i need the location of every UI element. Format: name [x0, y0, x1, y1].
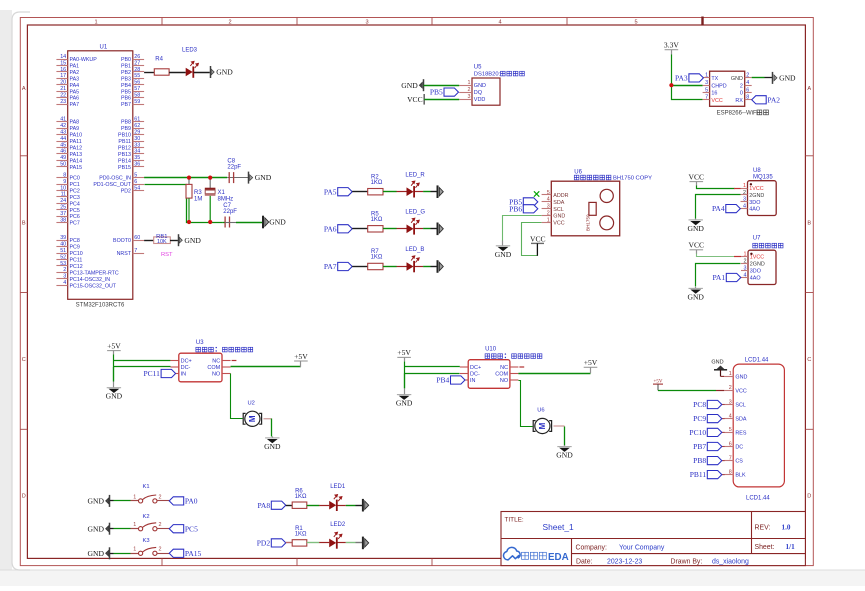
net flag PA3 — [675, 74, 703, 83]
wire RB1 to GND — [170, 240, 178, 242]
svg-text:2: 2 — [159, 494, 162, 500]
svg-text:C: C — [807, 357, 811, 363]
svg-text:PC10: PC10 — [70, 251, 83, 257]
svg-text:PC11: PC11 — [70, 258, 83, 264]
net flag PA4 — [712, 204, 740, 213]
svg-text:LCD1.44: LCD1.44 — [746, 496, 770, 502]
svg-text:PC15-OSC32_OUT: PC15-OSC32_OUT — [70, 283, 117, 289]
svg-text:Sheet:: Sheet: — [755, 544, 775, 551]
svg-text:5: 5 — [634, 20, 637, 26]
wire LED1 to GND — [346, 505, 356, 507]
svg-text:K3: K3 — [143, 538, 150, 544]
svg-text:3DO: 3DO — [750, 269, 761, 275]
svg-text:4: 4 — [63, 280, 66, 286]
svg-text:PA0: PA0 — [185, 497, 198, 506]
svg-text:IN: IN — [470, 378, 476, 384]
svg-text:9: 9 — [63, 179, 66, 185]
svg-text:VDD: VDD — [474, 97, 486, 103]
svg-text:1KΩ: 1KΩ — [295, 494, 307, 500]
net flag PC8 — [722, 404, 725, 406]
svg-text:PC8: PC8 — [70, 238, 80, 244]
svg-text:29: 29 — [134, 129, 140, 135]
svg-text:11: 11 — [61, 192, 67, 198]
svg-text:2: 2 — [743, 190, 746, 196]
wire PA7 to R7 — [352, 266, 368, 268]
svg-text:NO: NO — [500, 378, 509, 384]
svg-text:PA15: PA15 — [185, 549, 202, 558]
svg-text:1: 1 — [94, 20, 97, 26]
ground GND (LED3) — [211, 66, 234, 78]
svg-text:PA2: PA2 — [70, 70, 80, 76]
svg-text:NRST: NRST — [117, 251, 132, 257]
ground GND (U6 motor) — [556, 445, 573, 460]
svg-text:D: D — [22, 494, 26, 500]
wire 3.3V rail down — [672, 55, 703, 100]
svg-text:PC6: PC6 — [70, 214, 80, 220]
wire R1 to LED2 — [307, 542, 320, 544]
wire PB2 to R4 — [144, 72, 154, 74]
svg-text:57: 57 — [134, 86, 140, 92]
ground GND (C7) — [263, 216, 286, 229]
svg-text:2: 2 — [63, 267, 66, 273]
svg-text:VCC: VCC — [407, 95, 423, 104]
wire PD0-OSC_IN net (top rail) — [144, 177, 227, 179]
svg-text:PC3: PC3 — [70, 195, 80, 201]
svg-text:7: 7 — [134, 248, 137, 254]
net flag PB4 — [436, 376, 465, 385]
capacitor C7 22pF — [223, 203, 237, 228]
svg-text:40: 40 — [60, 241, 66, 247]
svg-text:3: 3 — [705, 80, 708, 86]
sensor U8 MQ135 — [741, 168, 777, 216]
svg-text:C8: C8 — [227, 158, 235, 164]
led LED_B — [397, 247, 425, 272]
svg-text:LED_B: LED_B — [405, 247, 424, 253]
svg-text:3: 3 — [547, 204, 550, 210]
junction dot 3.3V rail — [669, 83, 673, 87]
svg-text:20: 20 — [60, 80, 66, 86]
ground GND (LCD pin1) — [711, 360, 727, 377]
ground GND (U6) — [495, 241, 512, 259]
svg-text:PA2: PA2 — [767, 95, 780, 104]
svg-text:PC4: PC4 — [70, 201, 80, 207]
svg-text:1: 1 — [133, 494, 136, 500]
svg-text:1: 1 — [133, 547, 136, 553]
svg-text:38: 38 — [60, 217, 66, 223]
stub NC (U3) — [232, 360, 237, 362]
svg-text:51: 51 — [60, 248, 66, 254]
svg-text:30: 30 — [134, 136, 140, 142]
svg-text:4: 4 — [498, 20, 501, 26]
sensor U7 water-quality — [741, 235, 783, 284]
switch K3 — [133, 538, 161, 556]
svg-text:ds_xiaolong: ds_xiaolong — [712, 558, 749, 565]
svg-text:2: 2 — [228, 20, 231, 26]
wire VCC to U8 pin1 — [697, 186, 735, 189]
net flag PA5 — [324, 187, 352, 196]
svg-text:MQ135: MQ135 — [753, 175, 773, 181]
svg-text:PC5: PC5 — [70, 208, 80, 214]
wire COM to +5V — [231, 366, 301, 368]
wire R4 to LED3 — [169, 72, 186, 74]
svg-text:25: 25 — [60, 205, 66, 211]
svg-text:VCC: VCC — [553, 221, 564, 227]
svg-text:GND: GND — [474, 83, 486, 89]
net flag PC10 — [722, 431, 725, 433]
wire R5 to LED_G — [383, 228, 397, 230]
resistor R3 1M — [186, 178, 202, 222]
svg-text:EDA: EDA — [548, 552, 569, 563]
svg-text:+5V: +5V — [294, 352, 308, 361]
svg-text:GND: GND — [216, 68, 233, 77]
svg-text:Company:: Company: — [576, 544, 607, 551]
svg-text:+5V: +5V — [107, 341, 121, 350]
svg-text:C7: C7 — [223, 203, 231, 209]
wire R7 to LED_B — [383, 266, 397, 268]
svg-text:X1: X1 — [218, 190, 226, 196]
svg-text:61: 61 — [134, 117, 140, 123]
svg-text:1VCC: 1VCC — [750, 255, 764, 261]
svg-text:REV:: REV: — [755, 524, 771, 531]
svg-text:DC-: DC- — [470, 372, 480, 378]
svg-text:PA13: PA13 — [70, 152, 83, 158]
svg-text:8: 8 — [746, 95, 749, 101]
wire GND to K2 — [110, 528, 114, 530]
svg-text:1VCC: 1VCC — [749, 186, 763, 192]
svg-text:PB6: PB6 — [509, 204, 522, 213]
wire COM to +5V (U10) — [518, 373, 590, 375]
svg-text:GND: GND — [401, 81, 418, 90]
power VCC (U8) — [688, 172, 704, 185]
svg-text:15: 15 — [60, 60, 66, 66]
svg-text:1/1: 1/1 — [786, 543, 796, 551]
net flag PA8 — [257, 501, 285, 510]
wire PA8 to R6 — [286, 505, 292, 507]
svg-text:Drawn By:: Drawn By: — [671, 558, 703, 565]
svg-text:C: C — [22, 357, 26, 363]
power 3.3V — [664, 41, 679, 55]
svg-text:1.0: 1.0 — [782, 523, 791, 531]
svg-text:PA12: PA12 — [70, 145, 83, 151]
svg-text:PC0: PC0 — [70, 176, 80, 182]
net flag PD2 — [257, 539, 286, 548]
svg-text:SCL: SCL — [735, 403, 746, 409]
svg-text:2023-12-23: 2023-12-23 — [607, 558, 642, 565]
svg-text:1: 1 — [547, 217, 550, 223]
svg-text:U6: U6 — [537, 407, 544, 413]
svg-text:58: 58 — [134, 93, 140, 99]
svg-text:PA7: PA7 — [70, 102, 80, 108]
svg-text:2: 2 — [159, 547, 162, 553]
wire VCC to U5 pin3 — [424, 99, 459, 101]
svg-text:4AO: 4AO — [749, 207, 760, 213]
svg-text:1: 1 — [705, 73, 708, 79]
wire motor U6 to GND — [554, 425, 565, 427]
svg-text:GND: GND — [106, 392, 123, 401]
svg-text:50: 50 — [60, 162, 66, 168]
svg-text:PB15: PB15 — [118, 165, 131, 171]
svg-text:LED3: LED3 — [182, 48, 198, 54]
svg-text:PB11: PB11 — [690, 470, 707, 479]
svg-text:56: 56 — [134, 80, 140, 86]
ground (after LED2) — [363, 537, 369, 550]
wire R2 to LED_R — [383, 191, 397, 193]
svg-text:PB2: PB2 — [121, 70, 131, 76]
svg-text:PC9: PC9 — [693, 414, 706, 423]
svg-text:PB11: PB11 — [118, 139, 131, 145]
svg-text:PA4: PA4 — [712, 204, 725, 213]
svg-text:Sheet_1: Sheet_1 — [543, 522, 575, 532]
net flag PB8 — [722, 460, 725, 462]
svg-text:2: 2 — [746, 73, 749, 79]
svg-text:4: 4 — [547, 197, 550, 203]
resistor R5 1KΩ — [368, 212, 383, 233]
svg-text:LED2: LED2 — [330, 522, 346, 528]
svg-text:IN: IN — [181, 372, 187, 378]
svg-text:16: 16 — [60, 67, 66, 73]
svg-text:GND: GND — [88, 549, 105, 558]
power +5V (U10 left) — [397, 348, 411, 361]
svg-text:GND: GND — [269, 218, 286, 227]
svg-text:PB8: PB8 — [693, 456, 706, 465]
mcu U1 STM32F103RCT6 — [56, 44, 144, 308]
ground (after LED1) — [363, 499, 369, 512]
ground GND (C8) — [249, 172, 272, 184]
ground GND (ESP) — [773, 72, 797, 84]
resistor R1 1KΩ — [292, 526, 307, 546]
net flag PC5 — [169, 524, 198, 533]
svg-text:PC13-TAMPER-RTC: PC13-TAMPER-RTC — [70, 270, 119, 276]
svg-text:2: 2 — [744, 258, 747, 264]
svg-text:PB7: PB7 — [693, 442, 706, 451]
svg-text:22pF: 22pF — [223, 209, 237, 215]
svg-text:8MHz: 8MHz — [218, 196, 234, 202]
svg-text:PC7: PC7 — [70, 221, 80, 227]
svg-text:PA1: PA1 — [712, 273, 725, 282]
power +5V (U3 right) — [294, 352, 308, 367]
svg-text:B: B — [22, 221, 26, 227]
svg-text:1: 1 — [133, 522, 136, 528]
wire VCC to U7 pin1 — [697, 254, 735, 257]
ground GND (U5) — [401, 79, 423, 91]
svg-text:U6: U6 — [574, 169, 582, 175]
svg-text:8: 8 — [63, 172, 66, 178]
resistor R7 1KΩ — [368, 249, 383, 269]
wire +5V to DC+ / DC- rail — [114, 355, 171, 367]
svg-text:27: 27 — [134, 60, 140, 66]
wire U6 VCC — [522, 223, 542, 256]
svg-text:PB0: PB0 — [121, 57, 131, 63]
svg-text:2: 2 — [740, 83, 743, 89]
svg-text:37: 37 — [60, 211, 66, 217]
svg-text:GND: GND — [88, 497, 105, 506]
svg-text:5: 5 — [729, 427, 732, 433]
svg-text:PA6: PA6 — [70, 96, 80, 102]
svg-text:NO: NO — [212, 372, 221, 378]
wire K2 to PC5 — [157, 528, 169, 530]
svg-text:PB14: PB14 — [118, 158, 131, 164]
net flag PA1 — [712, 273, 740, 282]
svg-text:36: 36 — [134, 162, 140, 168]
power VCC (U7) — [688, 241, 704, 254]
svg-text:17: 17 — [60, 73, 66, 79]
net flag PA7 — [324, 262, 352, 271]
svg-text:VCC: VCC — [711, 98, 722, 104]
svg-text:K1: K1 — [143, 484, 150, 490]
svg-text:PA10: PA10 — [70, 133, 83, 139]
svg-text:GND: GND — [687, 292, 704, 301]
resistor R4 — [154, 57, 169, 76]
wire NO down to motor U6 — [519, 381, 533, 427]
svg-text:PA3: PA3 — [675, 74, 688, 83]
wire U6 GND down — [503, 216, 542, 241]
power +5V (U3 left) — [107, 341, 121, 354]
svg-text:U5: U5 — [474, 65, 482, 71]
svg-text:+5V: +5V — [397, 348, 411, 357]
svg-text:1: 1 — [468, 80, 471, 86]
svg-text:U7: U7 — [753, 235, 761, 241]
ground GND (K1) — [88, 495, 110, 507]
svg-text:DQ: DQ — [474, 90, 483, 96]
svg-text:60: 60 — [134, 235, 140, 241]
svg-text:U2: U2 — [248, 400, 255, 406]
net flag PA6 — [324, 224, 352, 233]
svg-text:33: 33 — [134, 142, 140, 148]
logo JLC EDA — [503, 547, 568, 562]
svg-text:3DO: 3DO — [749, 200, 760, 206]
svg-text:3: 3 — [365, 20, 368, 26]
svg-text:TX: TX — [711, 76, 718, 82]
svg-text:0: 0 — [740, 91, 743, 97]
svg-text:44: 44 — [60, 136, 66, 142]
svg-text:SDA: SDA — [553, 200, 564, 206]
stub NC (U10) — [519, 366, 524, 368]
svg-text:21: 21 — [60, 86, 66, 92]
svg-text:3: 3 — [468, 94, 471, 100]
svg-text:VCC: VCC — [735, 388, 746, 394]
svg-text:PC12: PC12 — [70, 264, 83, 270]
svg-text:1: 1 — [729, 371, 732, 377]
net flag PB5 (U5) — [430, 88, 459, 97]
svg-text:GND: GND — [556, 451, 573, 460]
net flag PB6 (U6) — [509, 204, 538, 213]
ground (after LED_R) — [438, 185, 444, 198]
svg-text:PC10: PC10 — [689, 428, 706, 437]
switch K1 — [133, 484, 161, 503]
net flag PB11 — [722, 474, 725, 476]
svg-text:BH1750 COPY: BH1750 COPY — [613, 176, 652, 182]
power VCC (U6) — [530, 234, 546, 255]
svg-text:PC11: PC11 — [143, 369, 160, 378]
svg-text:PB5: PB5 — [121, 89, 131, 95]
svg-text:DC-: DC- — [181, 365, 191, 371]
svg-text:1KΩ: 1KΩ — [371, 180, 383, 186]
svg-text:ESP8266--WiFi: ESP8266--WiFi — [717, 111, 758, 117]
svg-text:49: 49 — [60, 155, 66, 161]
svg-text:5: 5 — [134, 172, 137, 178]
svg-text:GND: GND — [255, 173, 272, 182]
svg-text:TITLE:: TITLE: — [505, 517, 524, 524]
junction dots oscillator — [187, 176, 191, 180]
svg-text:B: B — [807, 221, 811, 227]
svg-text:PD2: PD2 — [121, 188, 131, 194]
svg-text:45: 45 — [60, 142, 66, 148]
svg-text:2: 2 — [547, 211, 550, 217]
svg-text:NC: NC — [212, 359, 220, 365]
led LED2 — [319, 522, 346, 549]
wire GND to K1 — [110, 500, 114, 502]
title block — [501, 512, 805, 566]
crystal X1 8MHz — [205, 178, 233, 222]
svg-text:PC2: PC2 — [70, 188, 80, 194]
svg-text:+5V: +5V — [584, 358, 598, 367]
svg-text:GND: GND — [687, 224, 704, 233]
led LED1 — [319, 484, 346, 511]
wire PA5 to R2 — [352, 191, 368, 193]
svg-text:PC14-OSC32_IN: PC14-OSC32_IN — [70, 277, 111, 283]
svg-text:GND: GND — [779, 74, 796, 83]
svg-text:42: 42 — [60, 123, 66, 129]
power VCC (U5) — [407, 94, 424, 105]
svg-text:PB4: PB4 — [121, 83, 131, 89]
wire PD2 to R1 — [286, 542, 292, 544]
motor U2 — [243, 400, 261, 426]
svg-text:PB10: PB10 — [118, 133, 131, 139]
svg-text:GND: GND — [711, 360, 723, 366]
svg-text:+5V: +5V — [654, 379, 663, 384]
svg-text:VCC: VCC — [688, 241, 704, 250]
ground (after LED_G) — [438, 223, 444, 236]
wire 3.3V to CHPD — [671, 85, 702, 87]
svg-text:PA6: PA6 — [324, 224, 337, 233]
svg-text:VCC: VCC — [530, 234, 546, 243]
svg-text:PB9: PB9 — [121, 126, 131, 132]
svg-text:STM32F103RCT6: STM32F103RCT6 — [76, 302, 125, 308]
svg-text:U3: U3 — [196, 340, 204, 346]
ground GND (K3) — [88, 547, 110, 559]
svg-text:5: 5 — [705, 87, 708, 93]
svg-text:PA5: PA5 — [70, 89, 80, 95]
led LED_G — [397, 210, 426, 235]
svg-text:PA15: PA15 — [70, 165, 83, 171]
resistor R6 1KΩ — [292, 489, 307, 509]
svg-text:7: 7 — [729, 455, 732, 461]
svg-text:PB7: PB7 — [121, 102, 131, 108]
svg-text:RES: RES — [735, 430, 746, 436]
svg-text:7: 7 — [705, 95, 708, 101]
svg-text:PA3: PA3 — [70, 76, 80, 82]
relay U3 — [170, 340, 252, 382]
svg-text:PD1-OSC_OUT: PD1-OSC_OUT — [93, 182, 131, 188]
svg-text:39: 39 — [60, 235, 66, 241]
wire PD1-OSC_OUT net — [145, 185, 223, 223]
svg-text:R3: R3 — [194, 190, 202, 196]
ground GND (U8) — [687, 218, 704, 233]
wire +5V to U10 DC+/DC- — [405, 362, 460, 374]
svg-text:GND: GND — [553, 214, 565, 220]
capacitor C8 22pF — [227, 158, 241, 183]
svg-text:BH1750: BH1750 — [586, 214, 591, 231]
svg-text:VCC: VCC — [688, 172, 704, 181]
motor U6 (pump) — [533, 407, 551, 433]
svg-text:U8: U8 — [753, 168, 761, 174]
power +5V (LCD) — [653, 379, 663, 390]
svg-text:GND: GND — [735, 374, 747, 380]
svg-text:4AO: 4AO — [750, 276, 761, 282]
svg-text:GND: GND — [264, 442, 281, 451]
svg-text:PB12: PB12 — [118, 145, 131, 151]
module U9 ESP8266 — [703, 71, 769, 116]
